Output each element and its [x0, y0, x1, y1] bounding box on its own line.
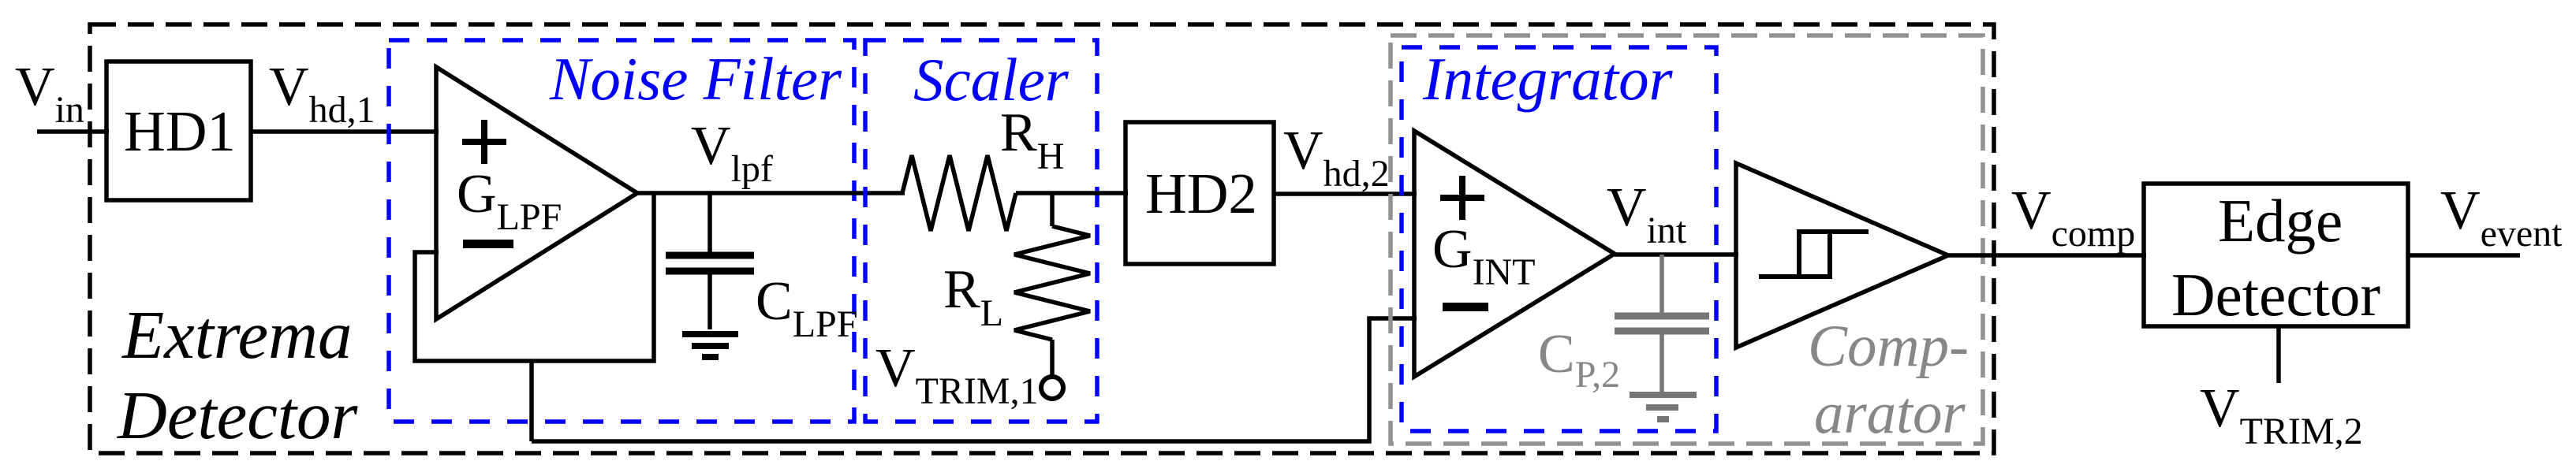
capacitor CP2 gray [1615, 255, 1709, 393]
svg-text:Vhd,2: Vhd,2 [1283, 121, 1390, 195]
svg-text:Vin: Vin [15, 57, 84, 131]
noise filter dashed box [389, 40, 854, 422]
svg-text:arator: arator [1814, 381, 1966, 446]
svg-text:HD2: HD2 [1145, 162, 1257, 225]
wire GLPF feedback loop [415, 193, 654, 361]
label Extrema Detector [117, 296, 359, 453]
wire bottom long run to integrator minus [532, 318, 1417, 441]
resistor RL [1014, 193, 1090, 376]
svg-text:Vevent: Vevent [2440, 180, 2563, 255]
integrator dashed box [1402, 47, 1716, 431]
svg-text:Noise Filter: Noise Filter [549, 45, 842, 113]
wire GLPF output [637, 191, 905, 195]
wire comparator output [1948, 253, 2146, 258]
svg-text:Integrator: Integrator [1422, 45, 1674, 113]
wire RH to HD2 [1016, 191, 1128, 195]
wire VTRIM2 [2276, 326, 2281, 383]
svg-text:VTRIM,2: VTRIM,2 [2200, 378, 2363, 452]
svg-text:Detector: Detector [117, 377, 359, 453]
wire GINT output [1615, 252, 1738, 257]
scaler dashed box [865, 40, 1097, 422]
wire feedback stub down [529, 361, 534, 441]
block HD2 [1126, 122, 1274, 264]
svg-text:Extrema: Extrema [121, 296, 353, 373]
svg-text:CP,2: CP,2 [1538, 324, 1620, 396]
resistor RH [902, 155, 1016, 231]
wire Vin input [37, 129, 109, 134]
op-amp GLPF [436, 67, 637, 319]
terminal VTRIM1 [1041, 377, 1063, 399]
svg-text:Scaler: Scaler [913, 46, 1070, 113]
wire HD2 to GINT [1274, 192, 1417, 196]
svg-text:CLPF: CLPF [756, 271, 857, 345]
svg-text:VTRIM,1: VTRIM,1 [875, 338, 1039, 412]
svg-text:Detector: Detector [2171, 261, 2380, 329]
comparator U3 [1736, 163, 1948, 348]
block HD1 [106, 61, 251, 200]
svg-text:HD1: HD1 [124, 99, 236, 163]
svg-text:RL: RL [943, 259, 1003, 334]
svg-text:Comp-: Comp- [1808, 314, 1969, 379]
svg-text:Vhd,1: Vhd,1 [269, 57, 375, 131]
svg-text:Vcomp: Vcomp [2011, 180, 2135, 255]
op-amp GINT [1414, 131, 1615, 377]
svg-text:Edge: Edge [2218, 187, 2343, 255]
svg-text:GINT: GINT [1432, 219, 1536, 293]
wire edge detector output [2408, 253, 2520, 258]
ground CLPF [682, 334, 738, 357]
outer dashed box Extrema Detector [90, 24, 1994, 453]
label Comp-arator [1808, 314, 1969, 446]
block Edge Detector [2144, 184, 2408, 329]
svg-text:Vlpf: Vlpf [691, 116, 773, 190]
svg-text:GLPF: GLPF [457, 164, 562, 238]
svg-text:Vint: Vint [1607, 177, 1687, 251]
wire HD1 to GLPF [251, 129, 439, 134]
svg-text:RH: RH [1000, 102, 1064, 177]
ground CP2 gray [1630, 395, 1697, 419]
comparator group dashed box [1391, 35, 1983, 444]
capacitor CLPF [666, 193, 754, 329]
